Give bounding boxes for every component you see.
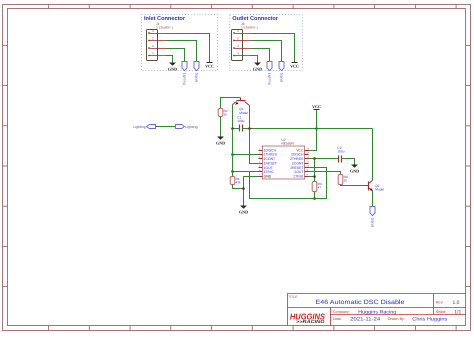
svg-text:100u: 100u <box>237 119 244 123</box>
svg-text:Inlet Connector: Inlet Connector <box>144 15 186 22</box>
wire Q2 emitter to Signal flag <box>372 191 374 207</box>
wire J3 pin3 to Lighting flag <box>251 49 270 62</box>
node rail/VCC <box>315 127 318 130</box>
U2 pin 13 2DISCH <box>305 154 309 156</box>
wire 2RESET loop bottom <box>250 168 327 199</box>
wire R3 vertical <box>314 159 316 182</box>
wire J3 pin2 to Signal flag <box>251 41 282 62</box>
wire B rail to 1RESET <box>250 129 259 164</box>
svg-text:Chris Huggins: Chris Huggins <box>412 316 448 322</box>
wire R3 bottom to bottom wire <box>314 192 316 199</box>
svg-text:VCC: VCC <box>205 63 214 68</box>
svg-text:1-1355897-1: 1-1355897-1 <box>156 25 173 29</box>
wire rail to Q2 collector <box>372 129 374 181</box>
U2 pin 6 1TRIG <box>259 171 263 173</box>
svg-text:GND: GND <box>216 140 225 145</box>
connector J3 pin 4 <box>235 55 251 57</box>
transistor Q1 <box>233 98 250 106</box>
wire U2 GND pin to GND node <box>244 177 259 206</box>
svg-text:Model: Model <box>375 188 384 192</box>
svg-text:47k: 47k <box>236 181 241 185</box>
svg-text:47: 47 <box>318 186 322 190</box>
svg-text:1-1355897-1: 1-1355897-1 <box>241 25 258 29</box>
ground (below R2) <box>217 137 224 140</box>
U2 pin 7 GND <box>259 176 263 178</box>
svg-text:GND: GND <box>239 209 248 214</box>
svg-text:Outlet Connector: Outlet Connector <box>232 15 279 22</box>
net flag Lighting (right of link) <box>176 125 185 129</box>
svg-text:100u: 100u <box>337 150 344 154</box>
wire J1 pin3 to Lighting flag <box>166 49 185 62</box>
wire J1 pin2 to Signal flag <box>166 41 197 62</box>
svg-text:Huggins Racing: Huggins Racing <box>358 309 396 315</box>
wire R2 top to Q1 base <box>221 98 241 109</box>
wire R4 to Q2 base <box>341 185 366 186</box>
svg-text:Model: Model <box>239 111 248 115</box>
node A upper <box>231 153 234 156</box>
connector J3 body <box>232 30 243 61</box>
svg-text:GND: GND <box>253 66 262 71</box>
connector J3 pin 2 <box>235 40 251 42</box>
wire 2OUT to R4 <box>309 172 341 175</box>
U2 pin 4 1RESET <box>259 163 263 165</box>
U2 pin 8 2TRIG <box>305 176 309 178</box>
svg-text:2021-11-24: 2021-11-24 <box>350 316 380 322</box>
net flag Signal (outlet) <box>279 62 284 71</box>
svg-text:1RESET: 1RESET <box>264 161 277 165</box>
wire J3 pin1 to VCC <box>251 34 295 63</box>
wire R1 bottom to GND node <box>233 185 244 189</box>
wire U2 VCC pin to rail <box>309 129 317 151</box>
svg-text:Signal: Signal <box>195 73 199 83</box>
svg-text:Lighting: Lighting <box>133 125 145 129</box>
svg-text:1k: 1k <box>224 113 228 117</box>
wire R2 bottom to GND <box>220 117 222 137</box>
svg-text:TITLE:: TITLE: <box>288 295 298 299</box>
node 2THRES/R3 <box>313 157 316 160</box>
node A lower <box>231 170 234 173</box>
U2 pin 1 1DISCH <box>259 150 263 152</box>
svg-text:VCC: VCC <box>290 63 299 68</box>
svg-text:GND: GND <box>350 168 359 173</box>
svg-text:2TRIG: 2TRIG <box>293 175 303 179</box>
wire rail left segment <box>233 128 240 130</box>
group box Outlet Connector <box>230 15 302 71</box>
transistor Q2 <box>366 185 369 187</box>
svg-text:1TRIG: 1TRIG <box>264 170 274 174</box>
svg-text:2OUT: 2OUT <box>294 170 303 174</box>
node rail/Q1 emitter <box>231 127 234 130</box>
wire 2THRES to C2 <box>309 158 339 160</box>
svg-text:2CONT: 2CONT <box>292 161 304 165</box>
svg-text:VCC: VCC <box>312 104 321 109</box>
wire VCC stem <box>316 110 318 129</box>
resistor R4 <box>338 175 343 185</box>
svg-text:Signal: Signal <box>280 73 284 83</box>
net flag Lighting (inlet) <box>182 62 187 71</box>
svg-text:Lighting: Lighting <box>185 125 197 129</box>
resistor R1 <box>230 177 235 185</box>
node 2TRIG/R3 <box>313 175 316 178</box>
svg-text:Sheet:: Sheet: <box>436 310 447 314</box>
U2 pin 5 1OUT <box>259 167 263 169</box>
wire Q1 emitter down <box>232 105 234 129</box>
ground (outlet) <box>254 63 261 66</box>
connector J1 pin 4 <box>150 55 166 57</box>
node R3/bottom wire <box>313 197 316 200</box>
connector J1 pin 3 <box>150 48 166 50</box>
connector J3 pin 3 <box>235 48 251 50</box>
svg-text:E46 Automatic DSC Disable: E46 Automatic DSC Disable <box>316 299 406 306</box>
connector J1 pin 1 <box>150 33 166 35</box>
net flag Lighting (outlet) <box>267 62 272 71</box>
group box Inlet Connector <box>142 15 218 71</box>
svg-text:REV: REV <box>436 300 444 304</box>
wire J1 pin4 to GND <box>166 56 173 63</box>
wire C2 to GND <box>342 159 355 165</box>
svg-text:2DISCH: 2DISCH <box>291 153 304 157</box>
svg-text:Drawn By:: Drawn By: <box>388 317 405 321</box>
connector J1 pin 2 <box>150 40 166 42</box>
svg-text:1k: 1k <box>344 179 348 183</box>
node rail/Q1 collector <box>248 127 251 130</box>
resistor R3 <box>312 182 317 192</box>
svg-text:1/1: 1/1 <box>454 309 461 315</box>
U2 pin 14 VCC <box>305 150 309 152</box>
svg-text:1.0: 1.0 <box>453 300 460 306</box>
svg-text:Signal: Signal <box>371 218 375 228</box>
svg-text:Lighting: Lighting <box>268 73 272 85</box>
U2 pin 9 2OUT <box>305 171 309 173</box>
wire rail main segment <box>243 128 373 130</box>
connector J1 body <box>147 30 158 61</box>
svg-text:Lighting: Lighting <box>183 73 187 85</box>
power VCC (mid) <box>314 109 320 111</box>
U2 pin 10 2RESET <box>305 167 309 169</box>
wire 1THRES <box>234 154 259 156</box>
ground (inlet) <box>169 63 176 66</box>
U2 pin 11 2CONT <box>305 163 309 165</box>
wire lighting link <box>156 126 176 128</box>
wire 2TRIG to R3 line <box>309 176 315 178</box>
connector J3 pin 1 <box>235 33 251 35</box>
svg-text:>>RACING: >>RACING <box>296 319 325 324</box>
node GND junction <box>242 187 245 190</box>
wire J3 pin4 to GND <box>251 56 258 63</box>
svg-text:Date:: Date: <box>333 317 342 321</box>
svg-text:Company:: Company: <box>333 310 350 314</box>
net flag Signal (Q2 emitter) <box>370 207 375 216</box>
wire J1 pin1 to VCC <box>166 34 210 63</box>
svg-text:GND: GND <box>264 175 272 179</box>
IC U2 NE556N body <box>262 146 304 179</box>
title block <box>288 294 466 326</box>
U2 pin 2 1THRES <box>259 154 263 156</box>
power VCC (outlet) <box>292 62 298 64</box>
U2 pin 3 1CONT <box>259 158 263 160</box>
wire Q1 collector down <box>249 106 251 129</box>
wire A vertical <box>232 129 234 177</box>
U2 pin 12 2THRES <box>305 158 309 160</box>
resistor R2 <box>218 109 223 117</box>
wire 1TRIG from node A <box>234 171 259 173</box>
power VCC (inlet) <box>207 62 213 64</box>
ground (below U2) <box>240 206 247 209</box>
svg-text:NE556N: NE556N <box>281 142 294 146</box>
svg-text:GND: GND <box>168 66 177 71</box>
ground (right of C2) <box>351 165 358 168</box>
net flag Signal (inlet) <box>194 62 199 71</box>
net flag Lighting (left of link) <box>147 125 156 129</box>
svg-text:1THRES: 1THRES <box>264 153 278 157</box>
